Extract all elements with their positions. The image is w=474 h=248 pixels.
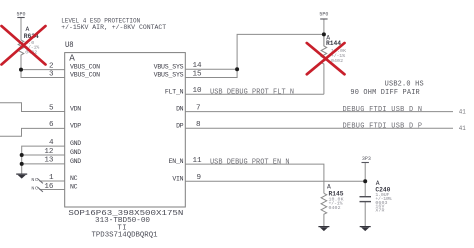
svg-text:USB DEBUG PROT EN N: USB DEBUG PROT EN N bbox=[210, 158, 290, 166]
svg-text:41: 41 bbox=[459, 109, 466, 117]
wire pin 8 DP bbox=[185, 127, 453, 129]
svg-text:VBUS_CON: VBUS_CON bbox=[70, 72, 100, 79]
wire C240 lower bbox=[364, 202, 366, 226]
wire pin 13 GND bbox=[22, 163, 65, 165]
svg-text:A: A bbox=[327, 183, 331, 190]
svg-text:11: 11 bbox=[193, 157, 203, 165]
svg-text:7: 7 bbox=[196, 104, 201, 112]
value R624 bbox=[25, 40, 39, 56]
svg-text:DEBUG FTDI USB D P: DEBUG FTDI USB D P bbox=[343, 123, 423, 131]
NC stub pin 1 bbox=[39, 180, 64, 182]
power bar 3P3 bbox=[362, 162, 369, 164]
wire pin 7 DN bbox=[185, 111, 453, 113]
power bar 5P0 left bbox=[17, 17, 24, 19]
no-connect slash pin 16 bbox=[37, 187, 43, 192]
svg-text:NC: NC bbox=[31, 186, 38, 192]
wire pin 5 bbox=[0, 103, 65, 112]
pin name labels left bbox=[70, 64, 100, 191]
svg-text:VDN: VDN bbox=[70, 106, 81, 113]
junction dot pin 12 bbox=[20, 153, 24, 157]
svg-text:DEBUG FTDI USB D N: DEBUG FTDI USB D N bbox=[343, 106, 423, 114]
svg-text:5P0: 5P0 bbox=[319, 10, 328, 17]
svg-text:4: 4 bbox=[49, 139, 54, 147]
capacitor C240 plates bbox=[360, 196, 372, 198]
note ESD protection bbox=[61, 17, 166, 31]
svg-text:3: 3 bbox=[49, 70, 54, 78]
svg-text:NC: NC bbox=[70, 184, 78, 191]
svg-text:R145: R145 bbox=[329, 190, 344, 197]
svg-text:5P0: 5P0 bbox=[17, 11, 26, 18]
svg-text:GND: GND bbox=[70, 140, 81, 147]
svg-text:14: 14 bbox=[193, 62, 203, 70]
power bar 5P0 right bbox=[320, 18, 327, 20]
svg-text:6: 6 bbox=[49, 121, 54, 129]
value C240 bbox=[375, 192, 391, 214]
wire pin 11 EN_N bbox=[185, 164, 324, 193]
value R145 bbox=[329, 196, 344, 211]
junction dot pins 2-3 bbox=[19, 68, 23, 72]
power 3P3 rail wire bbox=[364, 163, 366, 197]
ground symbol R145 bbox=[318, 226, 329, 231]
wire pin 3 bbox=[21, 70, 65, 78]
NC stub pin 16 bbox=[39, 189, 64, 191]
svg-text:+/-15KV AIR, +/-8KV CONTACT: +/-15KV AIR, +/-8KV CONTACT bbox=[61, 24, 166, 31]
pin numbers left bbox=[44, 62, 54, 190]
svg-text:15: 15 bbox=[193, 70, 203, 78]
no-connect slash pin 1 bbox=[37, 179, 43, 184]
svg-text:A: A bbox=[26, 26, 30, 33]
svg-text:5: 5 bbox=[49, 104, 54, 112]
wire pin 15 VBUS_SYS bbox=[185, 69, 237, 77]
svg-text:10: 10 bbox=[193, 87, 203, 95]
svg-text:0402: 0402 bbox=[329, 205, 341, 211]
resistor R624 body bbox=[18, 40, 24, 70]
junction dot pin 13 bbox=[20, 162, 24, 166]
svg-text:TPD3S714QDBQRQ1: TPD3S714QDBQRQ1 bbox=[92, 232, 158, 240]
svg-text:16: 16 bbox=[44, 183, 54, 191]
svg-text:VBUS_SYS: VBUS_SYS bbox=[154, 72, 184, 79]
svg-text:90 OHM DIFF PAIR: 90 OHM DIFF PAIR bbox=[350, 89, 419, 97]
svg-text:1: 1 bbox=[49, 174, 54, 182]
wire pin 14 VBUS_SYS bbox=[185, 68, 237, 70]
svg-text:DN: DN bbox=[176, 106, 184, 113]
power 5P0 right rail wire bbox=[323, 19, 325, 46]
resistor R145 body bbox=[321, 193, 327, 226]
wire pin 10 FLT_N bbox=[185, 93, 324, 95]
svg-text:NC: NC bbox=[70, 175, 78, 182]
wire pin 12 GND bbox=[22, 154, 65, 156]
power 5P0 left rail wire bbox=[20, 18, 22, 41]
svg-text:VIN: VIN bbox=[172, 175, 183, 182]
svg-text:2: 2 bbox=[49, 62, 54, 70]
junction dot pins 14-15 bbox=[235, 67, 239, 71]
DNI cross over R624 bbox=[2, 26, 46, 65]
svg-text:3P3: 3P3 bbox=[362, 155, 371, 162]
junction dot 5P0/R144 node bbox=[322, 32, 326, 36]
junction dot VIN/3P3/C240 node bbox=[363, 179, 367, 183]
value R144 bbox=[331, 48, 346, 64]
wire pin 4 GND bbox=[22, 146, 65, 173]
svg-text:41: 41 bbox=[459, 125, 466, 133]
wire pin 9 VIN bbox=[185, 180, 365, 182]
svg-text:GND: GND bbox=[70, 149, 81, 156]
svg-text:EN_N: EN_N bbox=[169, 158, 184, 165]
svg-text:USB2.0 HS: USB2.0 HS bbox=[385, 81, 424, 89]
svg-text:9: 9 bbox=[197, 174, 202, 182]
svg-text:A: A bbox=[69, 52, 75, 63]
wire pin 2 bbox=[21, 69, 65, 71]
wire VBUS_SYS to 5P0 rail bbox=[237, 34, 324, 69]
ground symbol GND pins bbox=[16, 174, 27, 179]
svg-text:GND: GND bbox=[70, 158, 81, 165]
pin name labels right bbox=[154, 63, 184, 182]
svg-text:USB DEBUG PROT FLT N: USB DEBUG PROT FLT N bbox=[210, 89, 294, 97]
svg-text:12: 12 bbox=[44, 148, 54, 156]
svg-text:DP: DP bbox=[176, 122, 184, 129]
wire pin 6 bbox=[0, 128, 65, 136]
svg-text:U8: U8 bbox=[65, 42, 74, 50]
DNI cross over R144 bbox=[307, 43, 345, 74]
part text under U8 bbox=[68, 210, 183, 240]
svg-text:13: 13 bbox=[44, 157, 54, 165]
ground symbol C240 bbox=[360, 226, 371, 231]
svg-text:VBUS_CON: VBUS_CON bbox=[70, 64, 100, 71]
pin numbers right bbox=[193, 62, 203, 182]
svg-text:FLT_N: FLT_N bbox=[165, 88, 184, 95]
svg-text:8: 8 bbox=[196, 121, 201, 129]
IC body U8 bbox=[65, 53, 186, 207]
svg-text:NC: NC bbox=[31, 177, 38, 183]
resistor R144 body bbox=[321, 34, 327, 94]
svg-text:X7R: X7R bbox=[375, 208, 384, 214]
svg-text:VBUS_SYS: VBUS_SYS bbox=[154, 63, 184, 70]
svg-text:VDP: VDP bbox=[70, 123, 81, 130]
